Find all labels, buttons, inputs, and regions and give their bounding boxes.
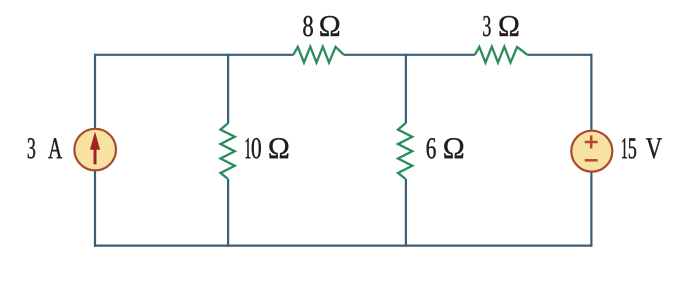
- wire middle branch node B upper: [227, 54, 229, 124]
- current source I1 arrow: [90, 132, 100, 165]
- label 6 ohm: [427, 138, 464, 158]
- current source I1 3A circle: [74, 129, 116, 171]
- voltage source V1 15V circle: [571, 131, 612, 172]
- wire top-middle segment: [344, 54, 475, 56]
- wire middle branch node B lower: [227, 179, 229, 247]
- wire top-left segment: [94, 54, 294, 56]
- label 3 A: [28, 138, 62, 158]
- voltage source V1 plus sign: [585, 136, 598, 149]
- label 15 V: [622, 138, 662, 158]
- wire middle branch node C lower: [405, 179, 407, 247]
- resistor R2 3ohm zigzag: [475, 47, 528, 63]
- label 8 ohm: [303, 16, 339, 36]
- label 10 ohm: [246, 138, 289, 158]
- resistor R1 8ohm zigzag: [293, 47, 344, 63]
- wire right branch: [590, 54, 592, 247]
- resistor R3 10ohm zigzag: [221, 123, 235, 179]
- voltage source V1 minus sign: [585, 159, 598, 162]
- label 3 ohm: [483, 16, 518, 36]
- wire top-right segment: [527, 54, 592, 56]
- wire middle branch node C upper: [405, 54, 407, 124]
- wire bottom segment: [94, 245, 592, 247]
- wire left branch: [94, 54, 96, 247]
- resistor R4 6ohm zigzag: [398, 123, 412, 179]
